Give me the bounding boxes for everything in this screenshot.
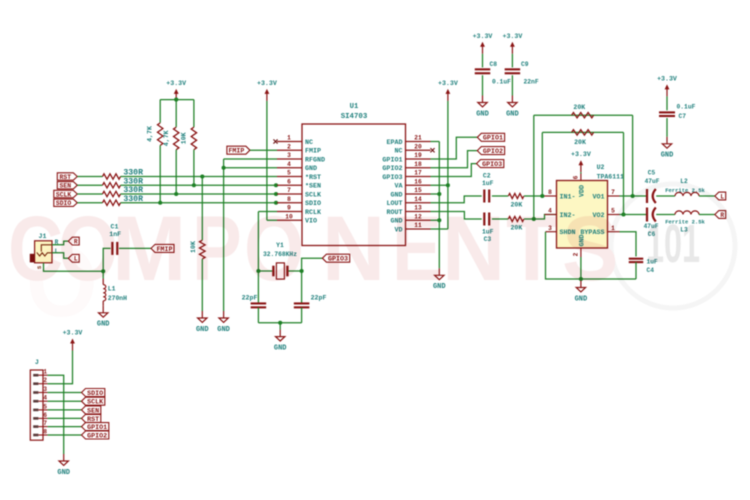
pin 2 connector J <box>33 377 47 385</box>
svg-text:+3.3V: +3.3V <box>473 33 493 40</box>
global label R (J1) <box>68 237 79 245</box>
svg-text:8: 8 <box>43 429 47 436</box>
wire ROUT <box>431 212 482 220</box>
pin number 18 <box>414 161 422 168</box>
wire SEN to resistor <box>77 184 102 186</box>
svg-text:SEN: SEN <box>60 183 72 190</box>
pin 17 stub U1 <box>406 176 431 178</box>
wire 22pF right bottom <box>301 308 303 323</box>
pin name RCLK <box>305 209 322 217</box>
wire J1 R to flag <box>52 241 68 245</box>
svg-text:RST: RST <box>60 174 72 181</box>
label 1nF <box>109 231 121 238</box>
global label GPIO2 <box>477 147 504 156</box>
watermark text 101 <box>646 215 700 274</box>
junction crystal left <box>256 269 260 273</box>
ground U2 <box>575 281 588 304</box>
pin 1 stub U1 <box>277 141 302 143</box>
label C7 <box>679 113 687 120</box>
capacitor C1 <box>112 242 117 255</box>
pin name GND <box>305 165 317 173</box>
resistor 330R (RST) <box>103 174 121 179</box>
wire VIO horizontal <box>267 219 277 221</box>
junction SDIO pin <box>274 201 278 205</box>
wire RST pulldown lower <box>201 259 203 311</box>
svg-text:3: 3 <box>287 152 291 159</box>
junction GND12 <box>437 218 441 222</box>
label 330R <box>123 169 143 178</box>
label SI4703 <box>341 113 368 121</box>
svg-text:4,7K: 4,7K <box>147 126 154 142</box>
pin name VDD <box>578 185 586 197</box>
label C4 <box>647 267 655 274</box>
pin 6 stub VDD <box>580 174 582 181</box>
wire RFGND pin3 <box>224 158 277 160</box>
power +3.3V U1 VA <box>438 80 458 101</box>
pin number 3 <box>287 152 291 159</box>
label 330R <box>123 186 143 195</box>
wire VO2 out <box>620 214 647 216</box>
pin name ROUT <box>386 209 402 217</box>
pin number 5 <box>611 208 615 215</box>
wire outer loop left <box>533 115 535 219</box>
pin 6 stub U1 <box>277 184 302 186</box>
pin name GPIO1 <box>382 156 402 164</box>
crystal Y1 <box>273 263 287 279</box>
no-connect pin1 <box>273 139 277 143</box>
label 0.1uF <box>492 78 511 85</box>
wire RFGND vertical <box>223 159 225 311</box>
wire C6 to L3 <box>656 214 675 216</box>
pin 6 connector J <box>33 412 47 420</box>
pin 10 stub U1 <box>277 219 302 221</box>
capacitor 22pF right <box>294 303 310 307</box>
svg-text:C: C <box>8 196 63 299</box>
label Ferrite 2.5k (L3) <box>665 219 705 226</box>
pin name LOUT <box>386 200 402 208</box>
pin number 6 <box>572 175 579 179</box>
junction IN1- <box>540 194 544 198</box>
label 47uF (C5) <box>645 178 660 185</box>
capacitor C7 <box>659 112 675 116</box>
pin number 21 <box>414 135 422 142</box>
pin number 14 <box>414 196 422 203</box>
svg-text:19: 19 <box>414 152 422 159</box>
svg-text:SCLK: SCLK <box>305 191 322 199</box>
label C3 <box>484 236 492 243</box>
pin name RFGND <box>305 156 325 164</box>
svg-text:5: 5 <box>287 170 291 177</box>
pin number 20 <box>414 143 422 150</box>
svg-text:17: 17 <box>414 170 422 177</box>
pin 4 stub U1 <box>277 167 302 169</box>
pin 2 stub U1 <box>277 149 302 151</box>
pin 11 stub U1 <box>406 228 431 230</box>
pin 1 stub <box>608 231 620 233</box>
wire GND vertical right of U1 <box>438 142 440 269</box>
resistor 330R (SCLK) <box>103 191 121 196</box>
pin name GPIO2 <box>382 165 402 173</box>
pin name IN2- <box>560 212 576 220</box>
wire +3.3V VA/VD vertical <box>447 101 449 229</box>
wire GND pin15 <box>431 193 440 195</box>
power +3.3V C9 <box>503 33 523 54</box>
junction RFGND/GND <box>222 166 226 170</box>
wire C7 bottom <box>666 118 668 137</box>
capacitor C2 <box>484 190 489 203</box>
svg-text:20: 20 <box>414 143 422 150</box>
pin name GND <box>390 191 402 199</box>
junction VA <box>446 183 450 187</box>
global label GPIO3 <box>477 160 504 169</box>
power +3.3V pullup rail <box>166 80 186 101</box>
wire inner loop top <box>542 131 623 133</box>
pin number 15 <box>414 187 422 194</box>
svg-text:2: 2 <box>43 377 47 384</box>
svg-text:P: P <box>192 196 242 299</box>
global label SCLK (J) <box>82 397 105 406</box>
svg-text:O: O <box>58 198 118 301</box>
global label L (J1) <box>68 254 79 262</box>
svg-text:+3.3V: +3.3V <box>503 33 523 40</box>
global label RST <box>57 173 77 181</box>
svg-text:EPAD: EPAD <box>386 139 402 147</box>
pin 5 stub U1 <box>277 176 302 178</box>
svg-text:T: T <box>506 197 558 300</box>
wire C3 to 20K <box>492 218 508 220</box>
svg-text:5: 5 <box>43 403 47 410</box>
pin 7 stub U1 <box>277 193 302 195</box>
global label SDIO (J) <box>82 389 105 398</box>
svg-text:8: 8 <box>548 189 552 196</box>
junction U2 gnd rail <box>579 277 583 281</box>
pin name GPIO3 <box>382 174 402 182</box>
global label SDIO <box>54 199 78 207</box>
wire BYPASS to C4 <box>620 232 637 257</box>
resistor R 10K (SEN pullup) <box>191 127 196 150</box>
svg-text:C5: C5 <box>648 170 656 177</box>
wire J pin1 to gnd <box>48 375 64 454</box>
svg-text:GND: GND <box>305 165 317 173</box>
label U2 <box>597 164 605 171</box>
wire J1 sleeve <box>44 263 104 271</box>
wire RCLK vertical to crystal <box>257 212 259 272</box>
wire C2 to 20K <box>492 195 508 197</box>
wire GPIO3 <box>431 164 477 177</box>
pin 2 stub GND <box>580 248 582 257</box>
wire outer loop top <box>534 114 633 116</box>
junction 10K/SEN <box>192 183 196 187</box>
ground RFGND <box>217 311 230 334</box>
label 22pF right <box>311 294 327 301</box>
wire node to L1 <box>102 271 104 278</box>
junction 4.7K-1/SDIO <box>158 201 162 205</box>
global label GPIO2 (J) <box>82 431 109 440</box>
pin number 19 <box>414 152 422 159</box>
label 4,7K <box>147 126 154 142</box>
pin 18 stub U1 <box>406 167 431 169</box>
amplifier U2 body <box>557 181 608 249</box>
svg-text:N: N <box>442 198 505 301</box>
ground pulldown <box>196 311 209 334</box>
global label GPIO3 (crystal) <box>322 254 349 263</box>
svg-text:C8: C8 <box>490 61 498 68</box>
label 20K inner <box>574 139 586 146</box>
power +3.3V U2 <box>571 151 591 172</box>
svg-text:6: 6 <box>572 175 579 179</box>
pin 8 stub <box>545 195 557 197</box>
wire SCLK to U1 <box>121 193 278 195</box>
global label SEN (J) <box>82 406 101 415</box>
capacitor C4 <box>629 259 644 262</box>
wire inner loop left <box>541 132 543 196</box>
svg-text:+3.3V: +3.3V <box>166 80 186 87</box>
svg-text:7: 7 <box>287 187 291 194</box>
wire FMIP to pin2 <box>250 149 277 151</box>
wire +3.3V to VDD <box>580 172 582 173</box>
pin number 4 <box>287 161 291 168</box>
global label R out <box>715 211 726 219</box>
resistor 20K feedback inner <box>572 130 594 135</box>
ground crystal <box>274 330 287 353</box>
svg-text:GPIO2: GPIO2 <box>382 165 402 173</box>
label 22nF <box>524 78 539 85</box>
pin 7 connector J <box>33 420 47 428</box>
wire RST to resistor <box>77 176 102 178</box>
svg-text:RFGND: RFGND <box>305 156 325 164</box>
pin number 1 <box>611 225 615 232</box>
pin name NC <box>305 139 313 147</box>
svg-text:1: 1 <box>43 369 47 376</box>
pin name L (J1) <box>55 248 59 255</box>
capacitor C8 <box>475 69 491 73</box>
junction SEN pin <box>274 183 278 187</box>
label U1 <box>350 103 359 111</box>
svg-text:TPA6111: TPA6111 <box>597 173 624 180</box>
pin name EPAD <box>386 139 402 147</box>
pin number 16 <box>414 178 422 185</box>
pin name *RST <box>305 174 321 182</box>
svg-text:NC: NC <box>305 139 313 147</box>
wire outer loop right <box>632 115 634 196</box>
resistor 330R (SEN) <box>103 183 121 188</box>
wire J pin3 to flag <box>48 392 82 394</box>
ground U1 <box>433 268 446 291</box>
junction crystal right <box>300 269 304 273</box>
capacitor C5 polarized <box>647 189 656 203</box>
label 22pF left <box>242 294 258 301</box>
label Y1 <box>276 242 284 249</box>
pin 9 stub U1 <box>277 211 302 213</box>
svg-text:*SEN: *SEN <box>305 183 321 191</box>
pin name FMIP <box>305 148 321 156</box>
connector J1 audio jack body <box>30 241 52 263</box>
op-amp U1 body <box>302 124 406 246</box>
pin name VO2 <box>592 212 604 220</box>
svg-text:J: J <box>35 359 39 366</box>
label C6 <box>648 231 656 238</box>
label 4,7K <box>163 130 170 146</box>
svg-text:16: 16 <box>414 178 422 185</box>
global label FMIP (C1) <box>151 244 174 252</box>
label 10K <box>190 241 197 253</box>
wire crystal gnd stub <box>279 323 281 330</box>
watermark circle 101 badge <box>611 184 735 308</box>
wire 10K bottom to SEN <box>193 150 195 186</box>
label 330R <box>123 177 143 186</box>
wire 20K to IN2- <box>524 215 557 220</box>
wire SEN to U1 <box>121 184 278 186</box>
pin 7 stub <box>608 195 620 197</box>
wire crystal to GPIO3 flag <box>302 258 323 271</box>
svg-text:18: 18 <box>414 161 422 168</box>
junction crystal gnd <box>278 321 282 325</box>
pin number 17 <box>414 170 422 177</box>
wire 10K top <box>193 100 195 128</box>
svg-text:RCLK: RCLK <box>305 209 322 217</box>
svg-text:N: N <box>322 198 385 301</box>
svg-text:GND: GND <box>661 152 674 160</box>
svg-text:SDIO: SDIO <box>305 200 321 208</box>
label 47uF (C6) <box>644 223 659 230</box>
wire J pin5 to flag <box>48 409 82 411</box>
ground J <box>57 454 70 477</box>
svg-text:GPIO1: GPIO1 <box>483 135 503 143</box>
svg-text:VDD: VDD <box>578 185 586 197</box>
pin 14 stub U1 <box>406 202 431 204</box>
svg-text:6: 6 <box>43 412 47 419</box>
wire VD horizontal <box>431 228 448 230</box>
svg-text:GND: GND <box>97 321 110 329</box>
wire RST to U1 <box>121 176 278 178</box>
label C1 <box>111 224 119 231</box>
wire 22pF left top <box>257 271 259 303</box>
wire 4.7K-2 top <box>175 100 177 128</box>
svg-text:+3.3V: +3.3V <box>438 80 458 87</box>
pin number 2 <box>287 143 291 150</box>
svg-text:GND: GND <box>196 326 209 334</box>
pin 3 stub <box>546 231 557 233</box>
svg-text:GND: GND <box>274 344 287 352</box>
label C5 <box>648 170 656 177</box>
global label FMIP (pin2) <box>227 146 250 154</box>
inductor L2 ferrite <box>675 192 699 196</box>
wire 4.7K-2 bottom to SCLK <box>175 150 177 194</box>
label 10K <box>180 132 187 144</box>
wire crystal left lead <box>258 270 272 272</box>
svg-text:C7: C7 <box>679 113 687 120</box>
label Ferrite 2.5k (L2) <box>665 187 705 194</box>
wire C4 down <box>635 262 637 279</box>
label J1 <box>39 233 47 240</box>
wire J1 L to flag <box>52 253 68 258</box>
junction IN2 node <box>532 217 536 221</box>
svg-text:U2: U2 <box>597 164 605 171</box>
svg-text:GPIO2: GPIO2 <box>87 432 107 440</box>
junction VO2 <box>621 212 625 216</box>
pin name R (J1) <box>55 239 59 246</box>
global label GPIO1 (J) <box>82 423 109 432</box>
svg-text:FMIP: FMIP <box>228 148 244 155</box>
pin 3 stub U1 <box>277 158 302 160</box>
resistor R 10K (RST pulldown) <box>200 240 206 259</box>
label 1uF (C4) <box>647 259 658 266</box>
svg-text:S: S <box>562 197 618 300</box>
svg-text:VA: VA <box>394 183 403 191</box>
watermark text COMPONENTS <box>8 196 618 300</box>
svg-text:L: L <box>720 193 724 200</box>
pin 8 connector J <box>33 429 47 437</box>
capacitor 22pF left <box>251 303 267 307</box>
pin number 7 <box>287 187 291 194</box>
pin number 7 <box>611 189 615 196</box>
label 0.1uF (C7) <box>677 104 696 111</box>
pin 8 stub U1 <box>277 202 302 204</box>
pin 21 stub U1 <box>406 141 431 143</box>
wire J pin7 to flag <box>48 426 82 428</box>
svg-text:4: 4 <box>287 161 291 168</box>
pin 12 stub U1 <box>406 219 431 221</box>
svg-text:4: 4 <box>43 395 47 402</box>
label 20K <box>510 224 522 231</box>
wire SDIO to resistor <box>77 202 102 204</box>
label C8 <box>490 61 498 68</box>
svg-text:SI4703: SI4703 <box>341 113 368 121</box>
wire GPIO2 <box>431 151 478 168</box>
power +3.3V C8 <box>473 33 493 54</box>
svg-text:GPIO1: GPIO1 <box>382 156 402 164</box>
pin number 1 <box>287 135 291 142</box>
svg-text:4,7K: 4,7K <box>163 130 170 146</box>
wire pullup rail horizontal <box>160 99 194 101</box>
svg-text:7: 7 <box>43 420 47 427</box>
svg-text:*RST: *RST <box>305 174 321 182</box>
svg-text:O: O <box>244 198 304 301</box>
wire RST pulldown upper <box>201 177 203 241</box>
svg-text:1: 1 <box>287 135 291 142</box>
global label RST (J) <box>82 414 101 423</box>
pin name GND (U2) <box>578 234 586 246</box>
svg-text:GPIO3: GPIO3 <box>482 161 502 169</box>
pin name SHDN <box>560 229 576 237</box>
wire C9 top <box>511 54 513 68</box>
svg-text:C9: C9 <box>521 61 529 68</box>
svg-text:VIO: VIO <box>305 218 317 226</box>
wire SDIO to U1 <box>121 202 278 204</box>
pin name NC <box>394 148 402 156</box>
label C9 <box>521 61 529 68</box>
inductor L3 ferrite <box>675 211 699 215</box>
wire U2 GND pin down <box>580 257 582 279</box>
wire inner loop right <box>623 132 625 214</box>
wire 22pF right top <box>301 271 303 303</box>
wire J pin2 to +3.3V <box>48 351 73 384</box>
pin name SDIO <box>305 200 321 208</box>
ground C7 <box>661 137 674 160</box>
resistor 20K feedback outer <box>572 113 594 118</box>
no-connect pin20 <box>430 148 434 152</box>
global label SCLK <box>54 190 78 198</box>
junction VO1 <box>631 194 635 198</box>
wire +3.3V to VIO vertical <box>266 101 268 220</box>
label 330R <box>123 195 143 204</box>
pin 16 stub U1 <box>406 184 431 186</box>
label J <box>35 359 39 366</box>
wire RCLK pin9 <box>258 211 277 213</box>
pin name VA <box>394 183 403 191</box>
pin number 8 <box>287 196 291 203</box>
pin number 3 <box>548 225 552 232</box>
